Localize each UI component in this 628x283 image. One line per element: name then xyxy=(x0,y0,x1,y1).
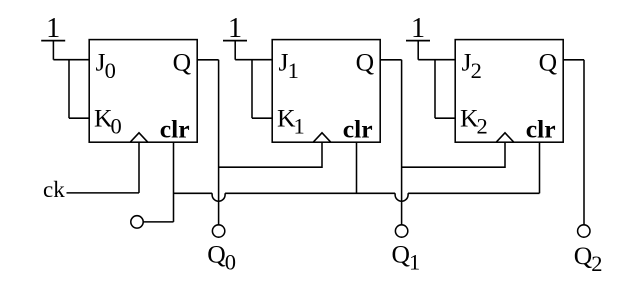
svg-text:K0: K0 xyxy=(94,103,122,138)
svg-text:clr: clr xyxy=(343,115,373,144)
logic-1 bar (FF1) xyxy=(223,40,247,42)
svg-text:Q1: Q1 xyxy=(392,240,421,275)
wire: branch down to K1 xyxy=(251,60,253,118)
wire: Q0 output horizontal xyxy=(197,59,218,61)
wire: branch down to K2 xyxy=(434,60,436,118)
output terminal circle Q0 xyxy=(212,225,224,237)
svg-text:K2: K2 xyxy=(460,103,488,138)
svg-text:1: 1 xyxy=(46,13,60,44)
logic-1 bar (FF2) xyxy=(406,40,430,42)
wire: Q0 vertical down to terminal xyxy=(218,60,220,225)
svg-text:Q: Q xyxy=(539,48,558,77)
wire: K2 input xyxy=(435,117,455,119)
clock wedge (FF0) xyxy=(130,133,148,142)
wire: J0 input xyxy=(53,59,89,61)
svg-text:Q0: Q0 xyxy=(207,240,236,275)
output terminal circle Q2 xyxy=(578,225,590,237)
wire: Q1 output horizontal xyxy=(380,59,401,61)
wire: clr bus segment 1 xyxy=(174,192,213,194)
wire: K0 input xyxy=(69,117,89,119)
wire: 1-bar drop to J0 xyxy=(52,41,54,60)
svg-text:clr: clr xyxy=(160,115,190,144)
svg-text:Q2: Q2 xyxy=(574,241,603,276)
wire hop over Q1 vertical xyxy=(395,193,408,201)
wire hop over Q0 vertical xyxy=(212,193,225,201)
wire: ck input xyxy=(67,192,140,194)
output terminal circle Q1 xyxy=(395,225,407,237)
wire: Q1 vertical down to terminal xyxy=(401,60,403,225)
svg-text:Q: Q xyxy=(356,48,375,77)
svg-text:ck: ck xyxy=(43,177,65,202)
svg-text:clr: clr xyxy=(526,115,556,144)
svg-text:J0: J0 xyxy=(96,48,116,83)
wire: Q0 to FF1 clock xyxy=(219,142,322,167)
wire: J1 input xyxy=(235,59,272,61)
flip-flop U2 box xyxy=(272,40,380,143)
svg-text:J2: J2 xyxy=(462,48,482,83)
svg-text:K1: K1 xyxy=(277,103,305,138)
wire: clr vertical FF2 down to clr bus xyxy=(539,142,541,193)
svg-text:J1: J1 xyxy=(279,48,299,83)
flip-flop U1 box xyxy=(89,40,197,143)
wire: clock vertical into FF0 wedge xyxy=(138,142,140,193)
svg-text:Q: Q xyxy=(173,48,192,77)
wire: K1 input xyxy=(252,117,272,119)
wire: branch down to K0 xyxy=(68,60,70,118)
wire: clear terminal to clr vertical xyxy=(143,221,173,223)
svg-text:1: 1 xyxy=(228,13,242,44)
wire: clr vertical FF0 down to clear node xyxy=(173,142,175,222)
flip-flop U3 box xyxy=(455,40,563,143)
clock wedge (FF2) xyxy=(496,133,514,142)
svg-text:1: 1 xyxy=(411,13,425,44)
wire: clr bus segment 3 xyxy=(408,192,539,194)
wire: J2 input xyxy=(418,59,455,61)
clock wedge (FF1) xyxy=(313,133,331,142)
wire: Q2 vertical down to terminal xyxy=(583,60,585,225)
clear input terminal circle xyxy=(131,216,143,228)
logic-1 bar (FF0) xyxy=(41,40,65,42)
wire: Q2 output horizontal xyxy=(563,59,584,61)
wire: clr vertical FF1 down to clr bus xyxy=(356,142,358,193)
wire: 1-bar drop to J1 xyxy=(234,41,236,60)
wire: 1-bar drop to J2 xyxy=(417,41,419,60)
wire: clr bus segment 2 xyxy=(225,192,395,194)
wire: Q1 to FF2 clock xyxy=(402,142,505,167)
